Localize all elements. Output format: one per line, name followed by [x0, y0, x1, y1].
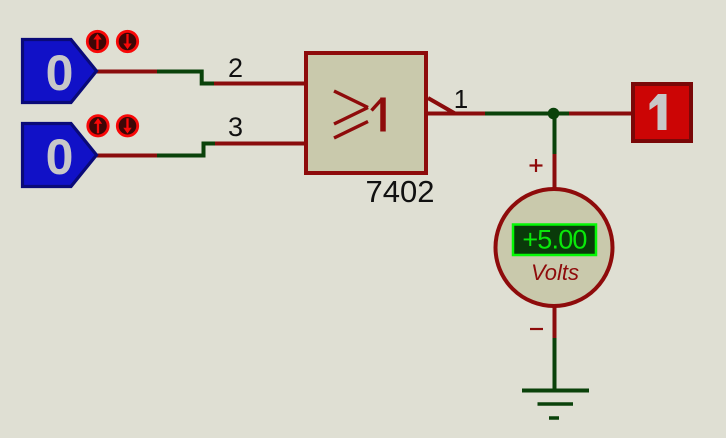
svg-text:0: 0: [46, 45, 74, 101]
svg-text:7402: 7402: [366, 174, 435, 209]
svg-text:3: 3: [228, 112, 243, 142]
svg-text:+5.00: +5.00: [522, 225, 586, 255]
svg-text:1: 1: [454, 84, 468, 114]
svg-text:2: 2: [228, 53, 243, 83]
svg-text:0: 0: [46, 129, 74, 185]
svg-text:Volts: Volts: [531, 260, 579, 285]
